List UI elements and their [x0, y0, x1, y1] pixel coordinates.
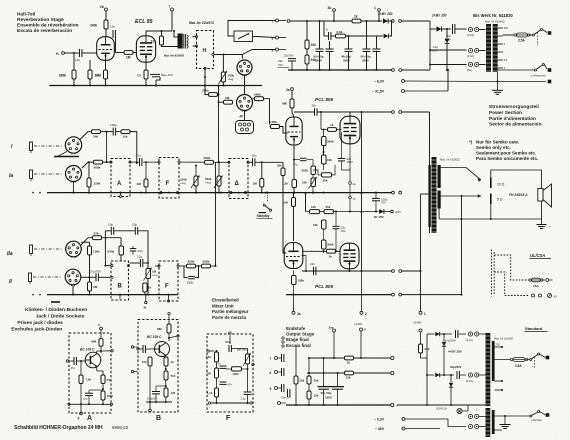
svg-text:150k: 150k: [93, 250, 100, 254]
jack IIa: [30, 245, 33, 254]
mains switch standard: [530, 359, 532, 361]
resistor 15k: [121, 130, 130, 134]
wire socket Ia down to bus: [73, 182, 75, 193]
svg-text:1,1k: 1,1k: [207, 391, 213, 395]
svg-text:2a: 2a: [286, 88, 290, 92]
rectifier diode row2: [427, 374, 435, 376]
svg-text:Output Stage: Output Stage: [286, 332, 315, 337]
svg-text:+230V: +230V: [354, 322, 362, 326]
svg-text:200k: 200k: [188, 260, 195, 264]
svg-text:350V: 350V: [343, 59, 350, 63]
svg-text:70V: 70V: [341, 229, 346, 233]
resistor 540 box A: [96, 366, 98, 371]
svg-text:5: 5: [270, 387, 272, 391]
svg-text:200k: 200k: [203, 260, 210, 264]
plate resistor 680 stage1: [290, 99, 294, 108]
svg-text:70V: 70V: [381, 201, 386, 205]
svg-text:Mat. Nr 610622: Mat. Nr 610622: [440, 158, 460, 162]
screen resistor 12k: [161, 31, 163, 36]
svg-text:+240V: +240V: [413, 321, 421, 325]
svg-text:30µ/250V: 30µ/250V: [450, 365, 462, 369]
svg-text:Standby: Standby: [257, 214, 270, 218]
plate resistor 1k stage2: [293, 192, 295, 194]
jack Ia: [30, 170, 33, 179]
terminal 1 board edge: [421, 193, 430, 195]
resistor 150k channel I: [88, 162, 90, 178]
svg-text:1k: 1k: [171, 360, 175, 364]
box F3 output pin: [248, 365, 254, 370]
transistor Q2 BC109C: [155, 342, 170, 357]
svg-text:+log: +log: [180, 181, 186, 185]
svg-text:70V: 70V: [278, 63, 283, 67]
svg-text:~ 31,5V: ~ 31,5V: [372, 90, 385, 94]
terminal 7 top: [171, 8, 174, 11]
svg-text:2b: 2b: [328, 6, 332, 10]
svg-text:Parte de mezcla: Parte de mezcla: [212, 315, 247, 320]
main bus y193: [47, 192, 392, 194]
DIN socket input II: [65, 269, 81, 285]
svg-text:F: F: [165, 284, 169, 290]
svg-text:10µ: 10µ: [108, 222, 113, 226]
box A terminal 9: [80, 404, 82, 412]
jack II: [29, 273, 32, 282]
svg-text:9: 9: [272, 48, 274, 52]
speaker return and ground: [439, 201, 541, 219]
volume pot 250k +log reverb: [222, 55, 224, 73]
svg-text:1000: 1000: [107, 394, 114, 398]
svg-text:10V/0,2A: 10V/0,2A: [436, 406, 447, 410]
svg-text:500k: 500k: [254, 92, 261, 96]
resistor 200k: [209, 93, 218, 97]
bus wire reverb section: [50, 85, 262, 87]
wire and connector mid: [430, 49, 467, 51]
svg-text:Escala final: Escala final: [286, 343, 311, 348]
resistor 750 box F3: [215, 368, 219, 378]
svg-text:47µ: 47µ: [293, 163, 298, 167]
svg-text:Power Section: Power Section: [489, 110, 522, 116]
cathode circles test points stage1: [349, 144, 351, 182]
svg-text:4×BY 250: 4×BY 250: [447, 350, 462, 354]
resistor 300k divider stage1: [311, 166, 316, 175]
tube V2 pentode ECL85 section: [136, 36, 155, 62]
svg-text:15µ: 15µ: [132, 222, 137, 226]
terminal 2a board edge: [293, 295, 295, 311]
svg-text:1M: 1M: [137, 182, 142, 186]
svg-text:Standard: Standard: [525, 326, 543, 331]
resistor 300k plate stage1: [323, 130, 325, 137]
resistor 25k dropper: [419, 344, 423, 353]
capacitor 100p: [112, 128, 114, 136]
cathode resistor 1M of V1: [105, 60, 107, 70]
resistor 680k grid leak: [73, 53, 75, 70]
svg-text:300k: 300k: [327, 140, 334, 144]
svg-text:+20V: +20V: [395, 210, 401, 214]
svg-text:7: 7: [272, 19, 274, 23]
resistor 10k divider: [307, 391, 311, 399]
svg-text:7: 7: [270, 357, 272, 361]
capacitor 22n 250V stage1: [338, 158, 345, 160]
svg-text:540: 540: [107, 378, 112, 382]
coupling cap 22n stage2: [293, 270, 295, 275]
power transformer Standard: [486, 333, 491, 406]
resistor 1k coupling stage2: [327, 249, 336, 253]
reverb driver transformer Mat Nr 610605: [178, 34, 183, 49]
svg-text:100k: 100k: [298, 279, 305, 283]
svg-text:12k: 12k: [151, 40, 157, 44]
wire H output to socket and terminal 9: [214, 54, 242, 56]
cap 47n box F3: [220, 381, 227, 383]
grid resistor 1M horizontal: [116, 52, 125, 54]
box A output pin: [111, 350, 113, 352]
transformer secondary winding standard: [492, 341, 495, 381]
svg-text:10n: 10n: [252, 153, 257, 157]
svg-text:7,5k: 7,5k: [86, 378, 92, 382]
pot 1M +log box F3: [246, 354, 250, 364]
svg-text:Einstellerteil: Einstellerteil: [212, 298, 239, 303]
box F3 ground wire: [211, 402, 250, 404]
svg-text:2a: 2a: [297, 312, 301, 316]
resistor 1M after box A: [145, 162, 147, 179]
plate wire of V2 to terminal 7: [146, 31, 172, 36]
svg-text:2×BY 250: 2×BY 250: [377, 12, 393, 16]
resistor 50k left: [295, 345, 297, 376]
svg-text:1M: 1M: [225, 96, 230, 100]
svg-text:4,7n: 4,7n: [136, 154, 142, 158]
pot 1M +log channel II: [147, 263, 149, 269]
svg-text:(2A): (2A): [467, 68, 472, 72]
svg-text:PCL 805: PCL 805: [315, 97, 333, 102]
svg-text:710: 710: [171, 374, 176, 378]
grid resistor 100k stage2: [292, 276, 297, 285]
bus bottom power: [397, 404, 486, 406]
svg-text:1k: 1k: [330, 123, 334, 127]
tube V6 PCL805 pentode stage2: [340, 243, 359, 269]
svg-text:68k: 68k: [157, 327, 162, 331]
terminal M below mixer: [145, 301, 147, 303]
grid wire V3: [286, 131, 288, 133]
supply rail y358: [309, 357, 345, 359]
svg-text:10k: 10k: [314, 394, 319, 398]
svg-text:Ensemble de réverbération: Ensemble de réverbération: [17, 23, 79, 29]
box A top feed: [100, 327, 103, 330]
cap 100u box A: [85, 392, 93, 394]
svg-text:10n: 10n: [110, 25, 115, 29]
svg-text:~ 6,3V: ~ 6,3V: [374, 80, 385, 84]
terminal 7 right column: [276, 19, 279, 22]
svg-text:47n: 47n: [83, 397, 88, 401]
capacitor 4.7n between A and F: [139, 158, 141, 166]
connector pair row2: [468, 373, 472, 377]
cap 1n box F3: [220, 365, 227, 367]
capacitor 10u channel IIa: [104, 231, 106, 238]
svg-text:UL/CSA: UL/CSA: [530, 253, 545, 258]
svg-text:u.Heizfad.: u.Heizfad.: [531, 419, 542, 422]
secondary tap 5 ohm: [441, 195, 481, 197]
svg-text:15k: 15k: [123, 134, 128, 138]
pin bottom standard: [495, 429, 502, 431]
volume pot 250k +log left: [195, 166, 197, 177]
socket II ground lead: [72, 285, 74, 295]
detail dashed box F3: [207, 334, 253, 412]
svg-text:0,8A: 0,8A: [515, 364, 522, 368]
B+ rail y112: [350, 111, 392, 113]
left vertical feed bottom power: [426, 334, 428, 405]
svg-text:A: A: [87, 415, 92, 422]
svg-text:1M: 1M: [284, 201, 289, 205]
bias row 12k 25k stage2: [305, 192, 307, 194]
svg-text:500k: 500k: [94, 165, 101, 169]
svg-text:u.Netzanschl.: u.Netzanschl.: [531, 74, 547, 78]
svg-text:6,8k: 6,8k: [337, 30, 343, 34]
svg-text:6: 6: [270, 371, 272, 375]
box A input cap: [66, 360, 68, 362]
svg-text:10µ/350V: 10µ/350V: [445, 339, 456, 343]
svg-text:Etage final: Etage final: [286, 337, 309, 342]
resistor 7.5k box A: [80, 361, 82, 375]
resistor 1k coupling stage1: [320, 112, 322, 130]
svg-text:240k: 240k: [90, 24, 97, 28]
resistor 25k stage1: [322, 173, 332, 177]
cap 22u 70V stage2: [335, 212, 337, 227]
tube V3 PCL805 triode: [286, 117, 302, 145]
svg-text:100p: 100p: [110, 123, 117, 127]
edge terminals right of box F3: [282, 337, 284, 339]
svg-text:10k: 10k: [327, 158, 332, 162]
resistor 200k second: [196, 265, 202, 267]
svg-text:350V: 350V: [362, 59, 369, 63]
ground standard: [504, 416, 506, 424]
svg-text:9: 9: [78, 417, 80, 421]
coupling cap 22n on plate line: [294, 111, 314, 113]
resistor 1000 box A: [101, 391, 105, 400]
resistor 1.1k box F3: [215, 388, 219, 397]
heater circuit standard: [495, 415, 530, 417]
cathode resistor Ck of V2: [145, 62, 147, 70]
svg-text:Mat.-Nr 220/672: Mat.-Nr 220/672: [189, 21, 214, 25]
tube V4 PCL805 pentode: [340, 116, 360, 144]
svg-text:1M: 1M: [253, 182, 258, 186]
svg-text:12µ: 12µ: [137, 254, 142, 258]
terminal 9 right column: [276, 48, 279, 51]
transistor Q1 BC109C: [85, 352, 101, 368]
svg-text:47n: 47n: [228, 383, 233, 387]
transformer core ground: [497, 72, 499, 90]
svg-text:250k: 250k: [204, 156, 211, 160]
svg-text:12k: 12k: [346, 376, 351, 380]
cathode bypass cap 47u stage1: [294, 159, 300, 161]
svg-text:22n: 22n: [312, 103, 317, 107]
capacitor 10n input: [79, 49, 81, 57]
wire to second stage grid with 20k: [282, 162, 284, 168]
resistor 500k from lower socket: [255, 97, 264, 101]
svg-text:25k: 25k: [326, 205, 331, 209]
svg-text:Mat. Nr 610/58: Mat. Nr 610/58: [494, 337, 513, 341]
svg-text:300k: 300k: [302, 169, 309, 173]
svg-text:20 Ω: 20 Ω: [497, 182, 505, 186]
filter capacitor bank 50+50u 350V third: [366, 21, 368, 49]
line y295 bus2: [47, 294, 178, 296]
resistor 100k reverb return: [271, 125, 280, 129]
svg-text:68k: 68k: [92, 340, 97, 344]
svg-text:Δ: Δ: [235, 181, 240, 187]
svg-text:100: 100: [142, 360, 147, 364]
terminal 1b power: [378, 9, 381, 12]
svg-text:Prises jack / diodes: Prises jack / diodes: [17, 320, 63, 326]
terminal 2 board edge: [361, 271, 363, 311]
svg-text:57k: 57k: [94, 231, 99, 235]
svg-text:Sector de alimentación: Sector de alimentación: [489, 122, 542, 128]
svg-text:IIa: IIa: [7, 251, 13, 257]
wire socket to lower socket: [244, 75, 246, 94]
svg-text:A: A: [117, 181, 122, 187]
cap 25u 70V left: [287, 389, 289, 397]
svg-text:10n: 10n: [75, 58, 80, 62]
reverb unit dashed box H: [197, 31, 214, 69]
filter dashed box F mixer: [159, 158, 179, 199]
svg-text:25µ/70V: 25µ/70V: [281, 396, 291, 400]
resistor 10k stage1: [322, 155, 327, 164]
DIN socket input IIa: [66, 241, 82, 257]
svg-text:Mat.-Nr 610605: Mat.-Nr 610605: [164, 54, 184, 58]
transformer secondary pins: [498, 27, 503, 29]
svg-text:20k: 20k: [277, 164, 282, 168]
resistor 1k channel II: [144, 283, 146, 295]
cathode resistor 2.2k stage1: [293, 145, 295, 155]
svg-text:350V: 350V: [315, 59, 322, 63]
svg-text:K: K: [326, 28, 328, 32]
svg-text:Mat. Nr 610422: Mat. Nr 610422: [485, 20, 505, 24]
svg-text:200k: 200k: [202, 89, 209, 93]
socket I ground bar: [58, 152, 67, 157]
svg-text:1k: 1k: [148, 286, 152, 290]
svg-text:Klinken- / Dioden-Buchsen: Klinken- / Dioden-Buchsen: [25, 307, 87, 313]
svg-text:Hall-Teil: Hall-Teil: [17, 12, 35, 18]
box B input cap: [137, 348, 139, 350]
connector pair heater1: [468, 414, 472, 418]
capacitor 150p parallel: [184, 266, 188, 278]
svg-text:50+ 50µ: 50+ 50µ: [321, 391, 332, 395]
terminal extra bottom: [278, 402, 281, 405]
svg-text:Enchufes jack-Dioden: Enchufes jack-Dioden: [11, 326, 62, 332]
mains fuse 0.8A standard: [513, 357, 525, 361]
volume pot 500k channel I: [82, 162, 94, 168]
resistor 15k filter: [306, 21, 308, 40]
capacitor K and resistor 6.8k bias line: [328, 32, 330, 40]
smoothing cap 10u 250V: [452, 24, 454, 34]
pot 22k hum balance: [311, 178, 316, 187]
svg-text:(0,4A): (0,4A): [466, 380, 473, 383]
svg-text:100k: 100k: [233, 372, 240, 376]
svg-text:620k: 620k: [108, 250, 115, 254]
power transformer Bis Werk: [486, 24, 491, 72]
svg-text:25k: 25k: [323, 179, 328, 183]
svg-text:+log: +log: [228, 77, 234, 81]
svg-text:250: 250: [504, 27, 509, 30]
resistor 710 box B: [164, 371, 168, 380]
resistor 68k box A: [99, 339, 103, 347]
svg-text:100k: 100k: [270, 120, 277, 124]
svg-text:50k: 50k: [300, 379, 305, 383]
capacitor 22u: [130, 248, 137, 250]
terminal 8 right column: [276, 36, 279, 39]
capacitor 15u channel IIa: [134, 227, 136, 235]
long wire screen supply x361: [361, 112, 363, 271]
svg-text:15k: 15k: [311, 43, 317, 47]
supply rail y373: [307, 372, 345, 374]
svg-text:Partie mélangeur: Partie mélangeur: [212, 309, 249, 314]
resistor 150k channel IIa: [81, 241, 89, 243]
preamp dashed box B mixer: [111, 261, 129, 300]
vertical wire x218 reverb to mixer: [218, 86, 220, 163]
svg-text:Reverberation Stage: Reverberation Stage: [17, 17, 64, 23]
DIN socket input Ia: [66, 166, 82, 182]
resistor 120 box B: [164, 388, 168, 397]
svg-text:680p: 680p: [225, 340, 232, 344]
svg-text:680k: 680k: [59, 74, 66, 78]
input terminal H: [62, 52, 65, 55]
svg-text:Schaltbild HOHNER-Orgaphon 24: Schaltbild HOHNER-Orgaphon 24 MH: [14, 425, 103, 431]
svg-text:22k: 22k: [302, 181, 307, 185]
svg-text:B: B: [118, 284, 123, 290]
svg-text:7: 7: [169, 5, 171, 9]
svg-text:680: 680: [282, 102, 287, 106]
DIN socket reverb upper: [237, 60, 252, 75]
terminal 2b top of reverb stage: [105, 8, 108, 11]
svg-text:50µ+15V: 50µ+15V: [161, 73, 173, 77]
mains fuse 2.5A: [503, 34, 514, 36]
svg-text:H: H: [203, 48, 207, 54]
DIN socket input I: [65, 137, 81, 153]
mains switch: [533, 34, 535, 36]
junction vertical to pot row: [106, 132, 108, 163]
filter caps 50+50u 250V output stage: [323, 358, 325, 386]
cap 100u 70V stage1: [375, 193, 377, 199]
box B ground wire: [146, 401, 172, 403]
resistor 10M: [89, 60, 91, 70]
svg-text:5 Ω: 5 Ω: [497, 197, 503, 201]
svg-text:120: 120: [171, 391, 176, 395]
filter capacitor M+50u 350V second: [348, 36, 350, 49]
svg-text:1: 1: [424, 312, 426, 316]
secondary tap 20 ohm: [441, 168, 481, 181]
box F3 top feed: [229, 332, 231, 334]
connector pair heater2: [468, 424, 472, 428]
cap 100u 6V box B: [152, 391, 160, 393]
output transformer Mat Nr 610622: [429, 112, 431, 233]
svg-text:+: +: [549, 225, 551, 229]
svg-text:F: F: [226, 415, 231, 422]
capacitor 12u after B: [130, 262, 140, 264]
svg-text:Mixer Unit: Mixer Unit: [212, 303, 234, 308]
filter dashed box F2 mixer: [159, 261, 178, 301]
svg-text:2: 2: [364, 328, 366, 332]
rectifier diode row1: [427, 333, 435, 335]
svg-text:F: F: [166, 181, 170, 187]
UL terminals bottom: [532, 294, 535, 297]
svg-text:1M: 1M: [126, 56, 131, 60]
bias diode BY 250: [362, 211, 379, 213]
resistor 100k box F3: [232, 367, 242, 371]
svg-text:22n: 22n: [310, 262, 315, 266]
svg-text:BC 109 C: BC 109 C: [80, 348, 95, 352]
svg-text:(0,1A): (0,1A): [467, 33, 474, 37]
svg-text:12k: 12k: [311, 205, 316, 209]
HT rail wire y21: [287, 20, 290, 23]
svg-text:(0,1A): (0,1A): [466, 339, 473, 342]
svg-text:27µ/70V: 27µ/70V: [90, 269, 101, 273]
svg-text:300k: 300k: [327, 243, 334, 247]
svg-text:~ 36V: ~ 36V: [375, 427, 385, 431]
